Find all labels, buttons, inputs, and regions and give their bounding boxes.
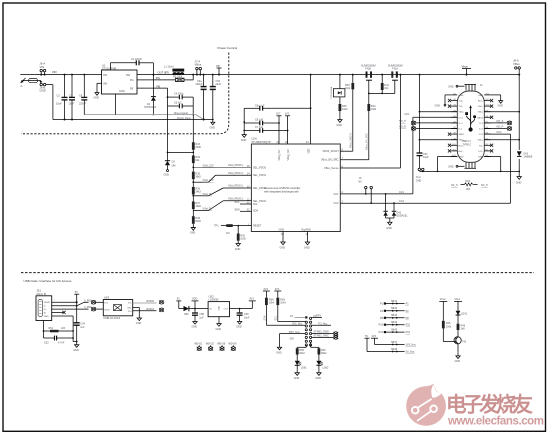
svg-text:NC: NC: [226, 232, 230, 235]
svg-text:Rx2-: Rx2-: [459, 151, 464, 153]
svg-text:GND: GND: [280, 247, 286, 250]
ground IC exppad: [304, 232, 310, 250]
resistor ladder divider chain: [192, 115, 202, 228]
svg-text:VSel_9V: VSel_9V: [203, 193, 213, 196]
connector J51 micro B: [36, 289, 56, 321]
shield comb top: [448, 84, 476, 90]
VS net flag: [216, 64, 222, 76]
svg-text:06k2: 06k2: [321, 352, 327, 355]
wire VBus pin row right: [484, 139, 520, 141]
svg-text:VBUS_DISCH: VBUS_DISCH: [323, 150, 339, 153]
ground C59: [236, 318, 242, 328]
wire SEL_PDO3 row: [192, 188, 251, 197]
svg-text:RSV: RSV: [316, 315, 321, 318]
wire U53 gnd: [133, 307, 142, 325]
svg-text:SCL: SCL: [253, 203, 258, 206]
LED LD62: [311, 342, 329, 380]
svg-text:WD-O2: WD-O2: [206, 343, 215, 346]
test point WD-O5: [217, 343, 226, 351]
svg-text:SB45: SB45: [391, 328, 398, 331]
svg-text:200: 200: [466, 188, 471, 191]
node 3V3 flag ldo: [249, 298, 256, 309]
svg-text:220nF: 220nF: [79, 103, 87, 106]
svg-text:VIN: VIN: [52, 70, 57, 74]
watermark elecfans logo: [406, 383, 446, 426]
svg-text:15k8: 15k8: [195, 205, 201, 208]
svg-text:U53: U53: [104, 296, 110, 300]
svg-text:200K: 200K: [195, 146, 201, 149]
power plane rail: [53, 119, 213, 121]
wire VReg_1V2: [287, 131, 289, 145]
op-amp U53 USBLC6 ESD: [103, 296, 132, 321]
wire D+2 no-connect right: [484, 126, 512, 131]
svg-text:220uF: 220uF: [196, 83, 204, 86]
svg-text:GND: GND: [304, 247, 310, 250]
svg-text:2V7: 2V7: [276, 113, 281, 116]
transistor T41A: [388, 65, 403, 81]
svg-text:GND: GND: [216, 328, 222, 331]
svg-text:SEL_PDO5: SEL_PDO5: [253, 166, 267, 169]
capacitor C5b: [210, 74, 222, 120]
svg-text:Vbus: Vbus: [455, 298, 461, 301]
ground IC gnd pin: [280, 232, 286, 250]
wire A12 gnd: [437, 157, 458, 173]
U1 agnd riser: [115, 94, 117, 115]
svg-text:GND: GND: [315, 377, 321, 380]
svg-text:CC2: CC2: [497, 131, 503, 134]
svg-text:Power Control: Power Control: [218, 46, 238, 50]
svg-text:Rx1+: Rx1+: [478, 101, 484, 103]
svg-text:Rx2+: Rx2+: [459, 145, 465, 147]
transistor T42 NPN: [454, 337, 467, 353]
wire VBus pin row: [419, 139, 458, 141]
connector J9 cc jumper: [358, 177, 372, 204]
svg-text:LD39050: LD39050: [209, 299, 220, 302]
svg-text:T42: T42: [462, 340, 467, 343]
wire LDO out: [230, 308, 253, 310]
svg-text:FB: FB: [157, 84, 161, 88]
section separator dashed: [21, 272, 534, 274]
svg-text:5V_Nuc: 5V_Nuc: [406, 351, 416, 354]
fuse F1: [23, 79, 42, 83]
svg-text:CC1: CC1: [399, 191, 405, 194]
resistor R04 SBU: [451, 180, 488, 191]
svg-text:T41B: T41B: [365, 68, 371, 71]
svg-text:SCL: SCL: [275, 315, 278, 320]
svg-text:GND: GND: [435, 105, 441, 108]
svg-text:3V3: 3V3: [275, 288, 280, 291]
wire D- row: [52, 302, 89, 306]
PG pullup resistor: [137, 74, 194, 82]
wire VReg_2V7: [278, 123, 280, 144]
svg-text:GND: GND: [459, 157, 464, 159]
solder bridge SB5: [379, 328, 411, 334]
svg-text:Vbus: Vbus: [462, 65, 469, 69]
svg-text:STPS2L60: STPS2L60: [144, 106, 157, 109]
svg-text:SBU1: SBU1: [459, 134, 465, 136]
op-amp U2A STUSB4700 main IC: [247, 137, 344, 236]
svg-text:GND: GND: [127, 308, 132, 310]
testpoint arrow A: [20, 78, 25, 88]
svg-text:R51: R51: [49, 327, 54, 330]
wire D+ row: [52, 308, 89, 310]
svg-text:1k8: 1k8: [461, 328, 466, 331]
svg-text:10uF: 10uF: [423, 156, 429, 159]
svg-text:100k: 100k: [240, 238, 246, 241]
svg-text:NO_S: NO_S: [497, 120, 504, 123]
svg-text:GND: GND: [416, 179, 422, 182]
svg-text:SDA: SDA: [263, 315, 266, 320]
svg-text:VReg_2V7: VReg_2V7: [279, 149, 281, 161]
resistor R45 vbus sense: [439, 298, 454, 341]
svg-text:VSel_5V: VSel_5V: [203, 208, 213, 211]
solder bridge SB47 3V3: [371, 335, 417, 347]
svg-text:VBUS: VBUS: [44, 302, 50, 304]
svg-text:06k2: 06k2: [299, 352, 305, 355]
svg-text:VSel_PDO5 (:: VSel_PDO5 (:: [228, 164, 244, 167]
diode D3 NM branch: [164, 106, 195, 177]
wire A1 gnd flag: [435, 95, 451, 108]
svg-text:VBus_DISCH: VBus_DISCH: [350, 133, 353, 148]
wires header right flags: [312, 322, 331, 325]
svg-text:4.7nF: 4.7nF: [58, 342, 65, 345]
svg-text:0_R53: 0_R53: [84, 306, 92, 309]
svg-text:Tx1+: Tx1+: [459, 101, 465, 103]
node 5V flag ldo: [176, 298, 183, 309]
inductor L1: [164, 66, 184, 75]
svg-text:Tx2+: Tx2+: [478, 151, 484, 153]
svg-text:ST1S14PHR: ST1S14PHR: [102, 67, 117, 70]
svg-text:Rx1-: Rx1-: [478, 106, 483, 108]
wire VBus pin row: [419, 111, 458, 113]
svg-text:VDD: VDD: [192, 298, 197, 301]
wire D+1 no-connect: [399, 120, 457, 125]
wire ID no-connect: [52, 311, 66, 314]
svg-text:10k0: 10k0: [342, 108, 348, 111]
svg-text:GND: GND: [276, 351, 282, 354]
svg-text:VDD: VDD: [309, 148, 311, 153]
capacitor C58: [192, 313, 204, 319]
svg-text:LD41: LD41: [461, 313, 468, 316]
wire VDD: [310, 74, 312, 144]
capacitor C8a: [244, 105, 311, 111]
svg-text:STM32_SWC: STM32_SWC: [314, 335, 329, 338]
solder bridge SB4: [379, 321, 411, 327]
svg-text:VSel_PDO2 (:: VSel_PDO2 (:: [228, 197, 244, 200]
wire OUT to right: [137, 74, 519, 76]
svg-text:GND: GND: [235, 248, 241, 251]
svg-text:RESET: RESET: [253, 225, 262, 228]
capacitor C8: [243, 119, 279, 126]
main VBUS wire: [20, 74, 101, 76]
wire VBUS_DISCH: [340, 74, 354, 152]
svg-text:VBUS: VBUS: [104, 309, 110, 311]
svg-text:GND: GND: [73, 349, 79, 352]
ground U52: [216, 317, 222, 331]
svg-text:NC_S: NC_S: [451, 184, 458, 187]
svg-text:D52: D52: [184, 313, 189, 316]
diode D42 ESDA25L dual: [383, 193, 408, 230]
svg-text:GND: GND: [516, 182, 522, 185]
svg-text:T41A: T41A: [392, 68, 398, 71]
solder bridge SB2: [380, 307, 409, 313]
svg-text:P12: P12: [379, 331, 384, 334]
capacitor C7: [69, 74, 76, 121]
svg-text:Sheet signal: Sheet signal: [174, 112, 188, 115]
svg-text:GND: GND: [478, 157, 483, 159]
ground ladder: [190, 228, 196, 235]
svg-text:USBLC6-2SC6: USBLC6-2SC6: [103, 317, 120, 320]
svg-text:TYPE C: TYPE C: [463, 143, 472, 146]
svg-text:GND: GND: [478, 95, 483, 97]
svg-text:TP1: TP1: [214, 224, 219, 227]
svg-text:P12: P12: [406, 331, 411, 334]
svg-text:with integrated discharge path: with integrated discharge path: [264, 190, 299, 194]
wire SEL_PDO2 row: [193, 201, 251, 211]
svg-text:SB44: SB44: [391, 321, 398, 324]
wire VBus_Sense: [340, 74, 401, 168]
regulator U1: [102, 63, 138, 94]
svg-text:GND: GND: [386, 227, 392, 230]
svg-text:I2C602: I2C602: [146, 300, 155, 303]
svg-text:VBus_Sense: VBus_Sense: [324, 167, 339, 170]
capacitor C7b: [243, 126, 287, 133]
svg-text:24k3: 24k3: [195, 191, 201, 194]
ground C04: [73, 342, 79, 352]
svg-text:VReg_1V2: VReg_1V2: [288, 149, 290, 161]
shield comb bottom: [448, 162, 476, 168]
svg-text:C8 1uF: C8 1uF: [255, 119, 264, 122]
svg-text:3V3: 3V3: [249, 298, 254, 301]
svg-text:VSel_PDO4 (:: VSel_PDO4 (:: [228, 172, 244, 175]
svg-text:110k: 110k: [345, 87, 351, 90]
svg-text:Tx2-: Tx2-: [479, 145, 484, 147]
wire header gnd: [276, 334, 305, 355]
svg-text:SB48: SB48: [391, 348, 398, 351]
solder bridge SB1: [380, 300, 409, 306]
svg-text:TO_Nuc: TO_Nuc: [318, 322, 328, 325]
wire VBus pin row right: [484, 111, 520, 113]
svg-text:GND: GND: [294, 377, 300, 380]
op-amp U52 LDO: [208, 294, 229, 316]
svg-text:8k06: 8k06: [195, 220, 201, 223]
connector J2 USB Type-C body: [457, 84, 484, 162]
wire J51 gnd row: [52, 316, 78, 342]
svg-text:CC1: CC1: [333, 193, 339, 196]
svg-text:USB-Node: Interface for I2C Ac: USB-Node: Interface for I2C Access: [24, 279, 72, 283]
svg-text:C52: C52: [44, 342, 49, 345]
svg-text:SW: SW: [126, 74, 131, 77]
ground bottom rail gnd: [516, 171, 522, 185]
svg-text:CC2: CC2: [399, 200, 405, 203]
node VDD flag: [192, 298, 199, 313]
svg-text:VBus: VBus: [459, 140, 465, 142]
svg-text:VSel_PDO3 (:: VSel_PDO3 (:: [228, 185, 244, 188]
resistor 0R bridge D+: [84, 306, 103, 311]
svg-text:OUT (BT): OUT (BT): [158, 70, 170, 74]
svg-text:GND: GND: [336, 124, 342, 127]
svg-text:STPS2L60A: STPS2L60A: [330, 86, 333, 99]
svg-text:GND: GND: [448, 85, 454, 88]
svg-text:NO_P: NO_P: [497, 126, 504, 129]
svg-text:RST_Nuc: RST_Nuc: [289, 331, 301, 334]
resistor 0R bridge D-: [84, 299, 103, 304]
svg-text:WD-O6: WD-O6: [229, 343, 238, 346]
USB trident logo: [465, 105, 476, 132]
svg-text:C6 NC: C6 NC: [174, 101, 182, 104]
svg-text:SDA: SDA: [253, 210, 258, 213]
svg-text:1N6808: 1N6808: [524, 156, 533, 159]
wire SCL: [235, 201, 252, 204]
solder bridge SB48 5V: [365, 335, 416, 354]
svg-text:LD61: LD61: [301, 366, 308, 369]
svg-text:3V3_Nuc: 3V3_Nuc: [406, 344, 417, 347]
connector J6-B GND: [39, 80, 53, 92]
svg-text:NO_P: NO_P: [399, 120, 406, 123]
connector J6-A VIN: [40, 62, 46, 76]
svg-text:C4 100p: C4 100p: [174, 92, 184, 95]
svg-text:22uF: 22uF: [216, 83, 222, 86]
svg-text:5V: 5V: [177, 298, 180, 301]
svg-text:GND: GND: [40, 89, 46, 93]
svg-text:GND: GND: [136, 322, 142, 325]
svg-text:Micro B: Micro B: [36, 292, 46, 296]
wire SEL_PDO5 row: [192, 167, 251, 169]
svg-text:WD-O5: WD-O5: [217, 343, 226, 346]
wire B12 gnd: [491, 95, 504, 108]
svg-text:GND: GND: [94, 97, 100, 100]
capacitor C51: [417, 153, 430, 168]
svg-text:NC_P: NC_P: [481, 184, 488, 187]
resistor R68 pullup SDA: [263, 288, 275, 305]
svg-text:3V0: 3V0: [290, 338, 295, 341]
svg-text:L1 10uH: L1 10uH: [164, 66, 174, 69]
svg-text:Vbus: Vbus: [440, 298, 446, 301]
svg-text:1uF: 1uF: [199, 316, 204, 319]
capacitor C04: [74, 323, 86, 342]
wire gnd rail vreg: [241, 108, 247, 142]
wire SDA down: [263, 305, 305, 325]
svg-text:1uF: 1uF: [80, 326, 85, 329]
svg-text:SEL_PDO4: SEL_PDO4: [253, 174, 267, 177]
svg-text:I2C601: I2C601: [146, 308, 155, 311]
svg-text:SB41: SB41: [391, 300, 398, 303]
wire VBUS row: [52, 301, 78, 303]
svg-text:3V3: 3V3: [263, 288, 268, 291]
svg-text:FB: FB: [130, 87, 134, 90]
resistor R46: [457, 324, 466, 337]
svg-text:GND: GND: [190, 232, 196, 235]
svg-text:GND: GND: [119, 90, 125, 93]
connector J7-A VBUS: [195, 59, 202, 75]
svg-text:VSel_15V: VSel_15V: [203, 179, 214, 182]
svg-text:GND: GND: [279, 229, 285, 232]
svg-text:CC2: CC2: [333, 202, 339, 205]
svg-text:VBus: VBus: [478, 140, 484, 142]
wire D-1 no-connect: [399, 126, 457, 131]
svg-text:GND: GND: [236, 326, 242, 329]
svg-text:SCL: SCL: [235, 201, 240, 204]
svg-text:STM32_SWD: STM32_SWD: [314, 331, 329, 334]
svg-text:10k4: 10k4: [269, 302, 275, 305]
svg-text:VIN: VIN: [40, 65, 45, 69]
svg-text:3V3: 3V3: [372, 335, 377, 338]
svg-text:R04: R04: [466, 180, 471, 183]
svg-text:VSel_22V: VSel_22V: [203, 164, 214, 167]
test point TP group: [194, 343, 203, 351]
svg-text:P10: P10: [406, 324, 411, 327]
connector J8-A VBus: [513, 59, 520, 172]
wire VBus_EN_SRC horizontal: [340, 159, 369, 161]
solder bridge SB3: [380, 314, 409, 320]
svg-text:10uF: 10uF: [69, 103, 75, 106]
svg-text:C1 100nF: C1 100nF: [131, 58, 142, 61]
capacitor C52 shield: [44, 336, 75, 345]
svg-text:VBus: VBus: [478, 112, 484, 114]
RESET network: [214, 224, 251, 251]
svg-text:VBus_EN_SRC: VBus_EN_SRC: [366, 133, 369, 150]
svg-text:0_R52: 0_R52: [84, 299, 92, 302]
svg-text:SB47: SB47: [391, 341, 398, 344]
svg-text:Autonomous USB PD controller: Autonomous USB PD controller: [264, 186, 300, 190]
svg-text:NC: NC: [358, 180, 362, 183]
svg-text:NM: NM: [172, 164, 176, 167]
transistor T43 aux: [330, 74, 348, 128]
svg-text:100k: 100k: [371, 108, 377, 111]
svg-text:ExpPAD: ExpPAD: [302, 229, 311, 232]
svg-text:PG: PG: [130, 79, 134, 82]
svg-text:GND: GND: [210, 126, 216, 129]
capacitor C5a: [196, 74, 207, 121]
svg-text:C7 1uF: C7 1uF: [255, 126, 264, 129]
resistor R41 gate: [381, 74, 390, 94]
svg-text:SBU2: SBU2: [477, 117, 483, 119]
svg-text:ESDA25L: ESDA25L: [397, 215, 409, 218]
svg-text:VBus_EN_SRC: VBus_EN_SRC: [321, 159, 339, 162]
svg-text:OUT: OUT: [224, 309, 229, 311]
power control dashed boundary: [21, 53, 229, 134]
U1 enable gnd: [94, 83, 102, 99]
svg-text:GND: GND: [192, 326, 198, 329]
wire VBus_EN_SRC vertical: [366, 93, 377, 159]
svg-text:1k5: 1k5: [61, 327, 66, 330]
svg-text:LD62: LD62: [322, 366, 329, 369]
wire SDA: [235, 209, 252, 212]
FB network: [137, 84, 194, 115]
capacitor C9: [79, 74, 87, 115]
svg-text:5V: 5V: [75, 291, 78, 294]
test point WD-O6: [229, 343, 238, 351]
test point WD-O2: [206, 343, 215, 351]
resistor R69 pullup SCL: [274, 288, 286, 305]
wire D-2 no-connect right: [484, 120, 512, 125]
svg-text:GND: GND: [164, 174, 170, 177]
node Vbus flag: [462, 65, 472, 76]
svg-text:GND: GND: [219, 305, 221, 310]
LED LD61: [294, 345, 308, 380]
resistor R51 shield: [43, 321, 74, 339]
svg-text:WD-O1: WD-O1: [194, 343, 203, 346]
svg-text:VBus: VBus: [459, 112, 465, 114]
node 5V flag: [74, 291, 79, 323]
wire B1 gnd: [484, 157, 501, 173]
svg-text:D-: D-: [44, 306, 47, 308]
svg-text:10k4: 10k4: [280, 302, 286, 305]
wire SEL_PDO4 row: [192, 175, 251, 183]
capacitor C59: [237, 309, 250, 320]
svg-text:10uF: 10uF: [56, 103, 62, 106]
connector J41 header: [290, 315, 322, 347]
